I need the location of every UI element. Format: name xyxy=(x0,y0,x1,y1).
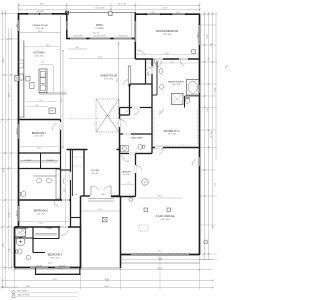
dim slash ticks top xyxy=(18,4,20,6)
svg-text:CLOSET: CLOSET xyxy=(46,228,52,230)
svg-text:PATIO: PATIO xyxy=(96,24,103,27)
master tub xyxy=(187,80,200,96)
isolated arrow mark right xyxy=(225,66,228,68)
door opening half bath north xyxy=(123,133,131,135)
master door arc xyxy=(157,60,162,67)
svg-text:DINING ROOM: DINING ROOM xyxy=(32,25,47,27)
svg-text:LAUNDRY: LAUNDRY xyxy=(122,170,132,173)
kitchen peninsula xyxy=(39,69,47,93)
patio top edge line xyxy=(67,11,136,13)
water heater circle xyxy=(142,179,148,185)
greatroom vertical dim xyxy=(62,50,64,148)
window jambs master top xyxy=(145,13,147,15)
window opening right wall bath xyxy=(199,85,201,93)
wic door arc xyxy=(159,109,164,115)
dim slash ticks left xyxy=(1,13,3,15)
door opening laundry east xyxy=(135,165,137,173)
exterior wall left main xyxy=(18,13,20,227)
bed3 closet east wall xyxy=(58,227,60,239)
porch wall stub right xyxy=(79,268,81,275)
master south wall xyxy=(135,58,200,60)
laundry door arc xyxy=(122,155,130,162)
window opening left wall dining xyxy=(18,20,20,31)
tag squares garage xyxy=(144,208,148,211)
garage entry door arc2 xyxy=(159,148,163,155)
kitchen south counter xyxy=(39,92,67,94)
svg-text:20'-0": 20'-0" xyxy=(157,268,162,270)
svg-text:13'-4": 13'-4" xyxy=(46,45,50,47)
slider opening 2 xyxy=(90,38,110,40)
svg-text:5'-8": 5'-8" xyxy=(127,182,130,184)
svg-text:2'-6": 2'-6" xyxy=(44,74,47,76)
porch pocket wall y217.5 xyxy=(71,217,81,219)
greatroom horiz dim xyxy=(68,58,134,60)
kitchen counter left xyxy=(23,41,25,118)
svg-text:COVERED: COVERED xyxy=(95,28,105,30)
svg-text:11'-4": 11'-4" xyxy=(39,223,44,225)
master bath vanity wall xyxy=(156,61,158,95)
bath3 sink xyxy=(26,256,30,260)
dimension lines left xyxy=(1,10,3,287)
door opening master south 1 xyxy=(153,58,163,60)
bed1 door arc xyxy=(53,123,57,130)
bath3 east wall xyxy=(32,227,34,253)
garage notch wall y153.5 xyxy=(136,153,153,155)
svg-text:11'6 x 14'0: 11'6 x 14'0 xyxy=(36,28,44,30)
svg-text:MASTER BATH: MASTER BATH xyxy=(168,80,184,83)
hall vertical dim xyxy=(65,152,67,225)
patio corner post left xyxy=(65,11,68,14)
bed3 closet sliders xyxy=(35,233,57,235)
window opening bed3 bottom xyxy=(30,267,48,269)
jog y115 xyxy=(120,114,130,116)
svg-text:41'-10 3/4": 41'-10 3/4" xyxy=(95,8,105,10)
exterior wall right xyxy=(199,14,201,255)
bath2 toilet xyxy=(21,191,25,197)
hall south wall y107.5 xyxy=(120,107,153,109)
svg-text:23'-6": 23'-6" xyxy=(64,188,66,192)
svg-text:HALF BATH: HALF BATH xyxy=(131,137,143,140)
svg-text:21'-6": 21'-6" xyxy=(162,8,167,10)
svg-text:28'-6": 28'-6" xyxy=(3,57,5,62)
dining dim line xyxy=(19,32,61,34)
svg-text:11'-4": 11'-4" xyxy=(37,148,42,150)
garage door opening xyxy=(131,254,189,256)
patio/greatroom north wall with sliders xyxy=(67,38,136,40)
greatroom-hall door xyxy=(119,119,121,127)
svg-text:11'0 x 11'6: 11'0 x 11'6 xyxy=(37,213,46,215)
svg-text:4040 SL: 4040 SL xyxy=(197,32,199,38)
exterior wall left lower (bath3 bump) xyxy=(14,227,16,268)
bed1/closet wall y153 xyxy=(19,152,61,154)
patio post tag square xyxy=(109,12,113,15)
dining-patio window opening xyxy=(66,21,68,30)
foyer west wall x84 xyxy=(83,150,85,197)
door opening master south 2 xyxy=(179,58,188,60)
svg-text:3050 SH: 3050 SH xyxy=(36,265,42,267)
porch left wall xyxy=(80,196,82,268)
front porch slab wall xyxy=(35,273,81,275)
exterior wall jog at y227 xyxy=(15,226,19,228)
exterior wall garage bottom xyxy=(121,254,201,256)
closet/bath2 wall y168.5 xyxy=(19,168,61,170)
tag circle bottom right xyxy=(204,240,208,244)
door opening right wall garage xyxy=(199,157,201,166)
bath3 inner wall y238 xyxy=(15,237,34,239)
garage entry door opening xyxy=(155,147,163,149)
svg-text:20'-4": 20'-4" xyxy=(158,196,163,198)
laundry east wall x135.5 xyxy=(135,154,137,197)
svg-text:22'-4": 22'-4" xyxy=(98,57,103,59)
greatroom south wall xyxy=(67,149,88,151)
svg-text:16'-0": 16'-0" xyxy=(205,35,207,40)
right dim extra slashes xyxy=(204,44,206,46)
svg-text:MASTER W.I.C.: MASTER W.I.C. xyxy=(164,130,181,133)
svg-text:80'-4 1/2": 80'-4 1/2" xyxy=(209,131,211,139)
svg-text:KITCHEN: KITCHEN xyxy=(34,52,45,55)
svg-text:11'-4": 11'-4" xyxy=(98,209,103,211)
svg-text:16'-0": 16'-0" xyxy=(26,286,31,288)
greatroom ceiling dashed square xyxy=(96,99,119,132)
greatroom dashed ceiling break xyxy=(68,117,135,119)
coat closet shelf dashes xyxy=(74,156,83,158)
door opening x152 xyxy=(151,66,153,74)
svg-text:2 CAR GARAGE: 2 CAR GARAGE xyxy=(156,215,175,218)
tag box porch xyxy=(102,217,107,222)
svg-text:12'-4": 12'-4" xyxy=(9,212,11,217)
garage door hatch xyxy=(132,253,135,256)
svg-text:17'0 x 20'0: 17'0 x 20'0 xyxy=(104,78,113,80)
garage apron line xyxy=(121,262,201,264)
bath2/bed2 wall y200 xyxy=(19,199,71,201)
svg-text:WH: WH xyxy=(144,182,147,184)
bath3 round fixture xyxy=(16,237,25,246)
patio interior dim xyxy=(68,48,87,50)
hall shelf wall y170 xyxy=(61,169,71,171)
door opening bed3 xyxy=(60,226,68,228)
bed3 right wall upper xyxy=(80,227,82,268)
kitchen sink on counter xyxy=(19,60,24,68)
greatroom south wall right stub xyxy=(117,149,120,151)
svg-text:22'-8": 22'-8" xyxy=(117,78,119,82)
window opening master top 2 xyxy=(172,13,185,15)
svg-text:10'-6": 10'-6" xyxy=(48,263,53,265)
kitchen horiz dim xyxy=(24,46,60,48)
bath3 toilet xyxy=(18,249,22,254)
kitchen ref box xyxy=(49,108,55,114)
bed1 east wall xyxy=(60,120,62,154)
window opening right wall master xyxy=(199,25,201,45)
svg-text:27'-6": 27'-6" xyxy=(213,183,215,188)
svg-text:36'-7 1/2": 36'-7 1/2" xyxy=(118,4,127,6)
kitchen small dims xyxy=(26,101,56,103)
dim slash ticks bottom xyxy=(120,259,122,261)
svg-text:14'0 x 16'0: 14'0 x 16'0 xyxy=(163,34,172,36)
closet divider wall xyxy=(40,153,42,169)
foyer south wall right xyxy=(111,195,120,197)
svg-text:21'-0": 21'-0" xyxy=(53,279,58,281)
bed1 window sill xyxy=(18,124,20,139)
bath2 east wall xyxy=(60,169,62,201)
svg-text:6'-8": 6'-8" xyxy=(9,248,11,252)
bath2 vanity sinks xyxy=(37,178,42,183)
svg-text:LINEN: LINEN xyxy=(148,71,150,77)
svg-text:12' CLG: 12' CLG xyxy=(105,116,111,118)
svg-text:6'0x4'0 SLDR: 6'0x4'0 SLDR xyxy=(73,36,83,38)
svg-text:3050: 3050 xyxy=(151,12,154,14)
patio wall left side xyxy=(66,12,68,39)
hall halfbath door arc xyxy=(134,109,139,114)
svg-text:3050 SH: 3050 SH xyxy=(16,211,18,217)
note lines bottom left xyxy=(12,291,15,294)
bath2 tub xyxy=(56,170,61,200)
wic south / garage north wall xyxy=(152,147,200,149)
half bath south wall xyxy=(120,153,153,155)
dim extension ticks left xyxy=(1,13,19,15)
svg-text:36'-7 1/2": 36'-7 1/2" xyxy=(92,33,100,35)
master hall east wall x152 xyxy=(151,59,153,148)
entry double door arcs xyxy=(91,186,99,190)
dimension line top outer xyxy=(18,4,200,6)
svg-text:3050: 3050 xyxy=(176,12,179,14)
window opening master top 1 xyxy=(147,13,160,15)
exterior wall top master xyxy=(135,13,200,15)
greatroom east wall x129.5 xyxy=(129,84,131,115)
svg-text:22'-6": 22'-6" xyxy=(205,108,207,113)
master bath shower xyxy=(172,94,184,105)
svg-text:6'0x4'0 SLDR: 6'0x4'0 SLDR xyxy=(118,36,128,38)
svg-text:12'0 x 14'0: 12'0 x 14'0 xyxy=(34,55,43,57)
bedroom3 bottom wall xyxy=(15,267,82,269)
svg-text:8'0 x 8'0: 8'0 x 8'0 xyxy=(92,173,98,175)
linen west wall xyxy=(145,59,147,84)
svg-text:31'-0": 31'-0" xyxy=(3,167,5,172)
svg-text:10'6 x 11'0: 10'6 x 11'0 xyxy=(51,257,60,259)
svg-text:8'0x5'0 SLDR XO: 8'0x5'0 SLDR XO xyxy=(94,36,106,38)
hall west wall jog xyxy=(119,108,121,116)
bath3 door arc xyxy=(21,229,26,233)
porch wall stub left xyxy=(35,268,37,275)
greatroom-hall door arc xyxy=(120,120,127,124)
svg-text:6040 SLDR: 6040 SLDR xyxy=(36,11,45,13)
master hall door leaf xyxy=(128,66,131,86)
svg-text:8'-0": 8'-0" xyxy=(76,47,80,49)
svg-text:3050 SH: 3050 SH xyxy=(16,129,18,135)
svg-text:2680: 2680 xyxy=(101,194,104,196)
half bath sink xyxy=(121,145,129,152)
svg-text:34'-0": 34'-0" xyxy=(213,88,215,93)
dimension lines bottom xyxy=(120,259,213,261)
greatroom east dim xyxy=(118,42,120,114)
porch step lines xyxy=(88,198,114,200)
window tag A right wall xyxy=(192,50,196,53)
dimension line top inner xyxy=(18,8,200,10)
svg-text:5'-6": 5'-6" xyxy=(40,100,43,102)
window opening top dining wall xyxy=(28,13,52,15)
svg-text:BEDROOM 3: BEDROOM 3 xyxy=(48,254,63,257)
attic access dashed xyxy=(139,225,148,231)
window opening bed3 bottom 2 xyxy=(55,267,70,269)
porch dim line xyxy=(81,210,120,212)
door opening bed2 xyxy=(62,199,69,201)
bed2 door arc xyxy=(54,200,58,207)
svg-text:2: 2 xyxy=(205,242,206,244)
svg-text:5'-0": 5'-0" xyxy=(126,111,129,113)
svg-text:20'0 x 20'0: 20'0 x 20'0 xyxy=(160,219,169,221)
bath3 shower xyxy=(15,229,26,237)
master bath top dim xyxy=(146,62,199,64)
svg-text:11'0 x 12'0: 11'0 x 12'0 xyxy=(172,84,180,86)
svg-text:2680: 2680 xyxy=(74,194,77,196)
door opening y107.5 xyxy=(132,107,140,109)
laundry south wall y196.5 xyxy=(111,196,136,198)
svg-text:64'-0": 64'-0" xyxy=(104,286,109,288)
svg-text:20'-0": 20'-0" xyxy=(158,251,163,253)
foyer south wall left xyxy=(81,195,91,197)
svg-text:3'-6": 3'-6" xyxy=(41,62,45,64)
garage service door arc xyxy=(192,159,196,166)
svg-text:12'-0": 12'-0" xyxy=(3,242,5,247)
kitchen wall tags xyxy=(15,76,20,81)
svg-text:4'-2": 4'-2" xyxy=(36,105,39,107)
garage entry door arc xyxy=(136,166,143,170)
svg-text:BEDROOM 2: BEDROOM 2 xyxy=(34,210,49,213)
master bath door arc 2 xyxy=(154,59,159,67)
kitchen/bed1 wall y119.5 xyxy=(19,119,61,121)
dim slash ticks right xyxy=(204,13,206,15)
svg-text:11'0 x 11'0: 11'0 x 11'0 xyxy=(35,136,44,138)
dimension lines right xyxy=(204,12,206,260)
master wc toilet xyxy=(185,98,189,103)
half bath north wall y134 xyxy=(120,133,153,135)
bed3 door arc xyxy=(61,230,68,236)
kitchen range xyxy=(19,74,24,80)
bath2 door arc xyxy=(62,178,65,185)
exterior wall top dining xyxy=(19,13,68,15)
slider opening 3 xyxy=(114,38,132,40)
master west wall / patio east xyxy=(134,12,136,59)
garage left wall lower xyxy=(120,196,122,268)
slider opening 1 xyxy=(70,38,86,40)
bed2/bed3 wall y227 xyxy=(15,226,81,228)
tag circle foyer xyxy=(129,198,133,202)
foyer east wall x119.5 xyxy=(119,115,121,197)
wic shelving dashes xyxy=(153,110,155,145)
svg-text:16'-1": 16'-1" xyxy=(39,4,44,6)
dim extension ticks bottom xyxy=(14,256,16,289)
window jamb marks dining xyxy=(26,13,28,15)
dim extension ticks right xyxy=(200,13,217,15)
svg-text:3050 SH: 3050 SH xyxy=(59,265,65,267)
svg-text:1ST FLOOR: 1ST FLOOR xyxy=(17,291,28,293)
porch front edge xyxy=(81,267,121,269)
bath hall door arc x152 xyxy=(146,67,152,71)
laundry interior dim xyxy=(121,184,134,186)
svg-text:GREAT ROOM: GREAT ROOM xyxy=(100,75,117,78)
half bath toilet xyxy=(138,144,142,149)
svg-text:16'-1": 16'-1" xyxy=(38,31,43,33)
master bath sink 2 xyxy=(160,85,164,90)
slider jambs xyxy=(68,38,70,40)
svg-text:REF: REF xyxy=(51,111,54,113)
svg-text:LINE OF ROOF: LINE OF ROOF xyxy=(17,295,31,297)
svg-text:6'0 x 8'0: 6'0 x 8'0 xyxy=(124,174,130,176)
master bath sink 1 xyxy=(159,69,163,74)
bed3 closet wall y238.5 xyxy=(33,238,59,240)
master west slider opening xyxy=(134,21,136,42)
svg-text:3050: 3050 xyxy=(16,24,18,28)
hall east wall x70.5 xyxy=(70,150,72,227)
svg-text:BEDROOM 1: BEDROOM 1 xyxy=(32,132,47,135)
svg-text:8'0 x 12'0: 8'0 x 12'0 xyxy=(168,134,176,136)
closet slider lines xyxy=(20,160,58,162)
garage west wall upper jog xyxy=(151,148,153,154)
hall north wall y84 xyxy=(130,83,153,85)
kitchen dishwasher xyxy=(30,83,34,89)
svg-text:11'-2": 11'-2" xyxy=(170,61,174,63)
master bedroom door arc sw xyxy=(137,50,145,55)
right wall extension stubs xyxy=(200,24,216,26)
window opening left wall bedroom1 xyxy=(18,124,20,139)
hall piece x60.5 xyxy=(60,153,62,169)
master bath door arc xyxy=(180,59,184,66)
kitchen open line xyxy=(60,14,62,120)
bath3 east wall lower xyxy=(33,252,45,254)
door opening bed1 xyxy=(60,122,62,130)
patio inner edge line xyxy=(131,13,133,38)
svg-text:MASTER BEDROOM: MASTER BEDROOM xyxy=(156,30,178,33)
dim extension ticks top xyxy=(18,3,20,14)
svg-text:14'-2": 14'-2" xyxy=(9,92,11,97)
hall closet wall x72.5 xyxy=(72,150,74,197)
window opening left wall bedroom2 xyxy=(18,206,20,221)
svg-text:19'-2": 19'-2" xyxy=(61,97,63,102)
svg-text:21'-6": 21'-6" xyxy=(209,43,211,48)
